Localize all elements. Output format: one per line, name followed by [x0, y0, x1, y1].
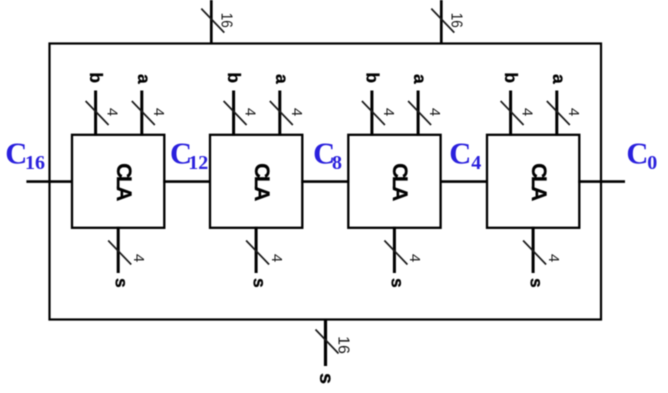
svg-text:C: C	[626, 137, 648, 171]
bus-width slash on a input of U1	[132, 101, 155, 125]
wire: input a of U1	[140, 91, 143, 136]
svg-text:a: a	[549, 74, 569, 84]
svg-text:16: 16	[448, 13, 465, 28]
svg-text:4: 4	[380, 108, 397, 116]
svg-text:s: s	[526, 278, 546, 288]
svg-text:s: s	[315, 373, 337, 384]
svg-text:b: b	[224, 72, 244, 83]
bus-width slash on a input of U4	[547, 101, 570, 125]
bus-width slash on a input of U2	[270, 101, 293, 125]
svg-text:0: 0	[647, 152, 657, 174]
wire: input a of U3	[417, 91, 420, 136]
bus-width slash on b input of U4	[501, 101, 524, 125]
wire: carry C4 between U3 and U4	[440, 180, 488, 183]
bus-width slash on input bus b[15:0]	[201, 9, 224, 33]
CLA block U4	[487, 135, 579, 228]
svg-text:C: C	[449, 137, 471, 171]
svg-text:4: 4	[426, 108, 443, 116]
wire: 16-bit sum output bus s[15:0]	[324, 319, 327, 367]
wire: input b of U2	[232, 91, 235, 136]
svg-text:s: s	[388, 278, 408, 288]
svg-text:4: 4	[565, 108, 582, 116]
svg-text:b: b	[501, 72, 521, 83]
svg-text:s: s	[111, 278, 131, 288]
bus-width slash on b input of U1	[86, 101, 109, 125]
wire: sum output s of U3	[393, 227, 396, 273]
svg-text:s: s	[249, 278, 269, 288]
bus-width slash on sum bus	[316, 330, 339, 354]
wire: input a of U2	[278, 91, 281, 136]
svg-text:4: 4	[288, 108, 305, 116]
wire: input a of U4	[555, 91, 558, 136]
wire: sum output s of U1	[117, 227, 120, 273]
svg-text:12: 12	[188, 152, 208, 174]
wire: sum output s of U2	[255, 227, 258, 273]
svg-text:4: 4	[519, 108, 536, 116]
wire: carry-in C0 stub (right of U4, crossing module edge)	[578, 180, 625, 183]
bus-width slash on b input of U3	[362, 101, 385, 125]
wire: input b of U1	[94, 91, 97, 136]
wire: sum output s of U4	[532, 227, 535, 273]
wire: carry C8 between U2 and U3	[301, 180, 349, 183]
wire: input b of U4	[509, 91, 512, 136]
bus-width slash on s output of U3	[384, 241, 407, 265]
svg-text:CLA: CLA	[250, 163, 273, 201]
bus-width slash on s output of U4	[523, 241, 546, 265]
wire: carry C12 between U1 and U2	[163, 180, 211, 183]
wire: 16-bit input bus b[15:0]	[210, 0, 213, 45]
svg-text:b: b	[362, 72, 382, 83]
svg-text:a: a	[134, 74, 154, 84]
svg-text:4: 4	[242, 108, 259, 116]
svg-text:4: 4	[545, 254, 562, 262]
CLA block U1	[72, 135, 164, 228]
CLA block U3	[348, 135, 440, 228]
svg-text:CLA: CLA	[112, 163, 135, 201]
bus-width slash on s output of U2	[246, 241, 269, 265]
svg-text:4: 4	[104, 108, 121, 116]
svg-text:4: 4	[406, 254, 423, 262]
svg-text:b: b	[86, 72, 106, 83]
svg-text:4: 4	[268, 254, 285, 262]
svg-text:8: 8	[332, 152, 342, 174]
bus-width slash on input bus a[15:0]	[431, 9, 454, 33]
svg-text:16: 16	[334, 336, 351, 354]
16-bit CLA adder module box	[50, 44, 602, 320]
wire: 16-bit input bus a[15:0]	[440, 0, 443, 45]
svg-text:16: 16	[25, 152, 45, 174]
wire: input b of U3	[370, 91, 373, 136]
CLA block U2	[210, 135, 302, 228]
bus-width slash on s output of U1	[108, 241, 131, 265]
wire: carry-out C16 stub (left of U1, crossing module edge)	[26, 180, 73, 183]
svg-text:a: a	[410, 74, 430, 84]
svg-text:4: 4	[471, 152, 481, 174]
svg-text:16: 16	[218, 13, 235, 28]
bus-width slash on a input of U3	[408, 101, 431, 125]
svg-text:4: 4	[150, 108, 167, 116]
svg-text:CLA: CLA	[388, 163, 411, 201]
svg-text:CLA: CLA	[527, 163, 550, 201]
svg-text:a: a	[272, 74, 292, 84]
bus-width slash on b input of U2	[224, 101, 247, 125]
svg-text:4: 4	[130, 254, 147, 262]
svg-text:C: C	[5, 137, 27, 171]
